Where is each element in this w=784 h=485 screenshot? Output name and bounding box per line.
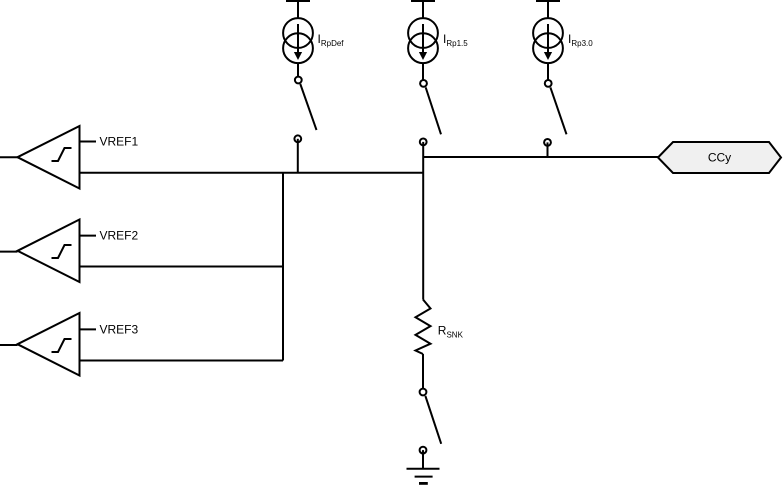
wire bbox=[547, 63, 549, 83]
wire bbox=[422, 450, 424, 469]
wire bbox=[80, 235, 97, 237]
svg-text:CCy: CCy bbox=[708, 151, 731, 165]
wire bbox=[0, 251, 18, 253]
svg-text:IRp1.5: IRp1.5 bbox=[443, 32, 468, 48]
wire bbox=[80, 328, 97, 330]
ground bbox=[407, 469, 440, 484]
comparator U2 bbox=[18, 220, 80, 283]
svg-text:IRp3.0: IRp3.0 bbox=[568, 32, 593, 48]
wire bbox=[422, 1, 424, 19]
power rail bar 3 bbox=[536, 0, 560, 2]
power rail bar 2 bbox=[411, 0, 435, 2]
node CCy bbox=[658, 142, 781, 173]
switch SW3 bbox=[544, 80, 566, 146]
wire bbox=[422, 63, 424, 83]
wire bbox=[297, 1, 299, 19]
power rail bar 1 bbox=[286, 0, 310, 2]
wire main bus bbox=[80, 172, 424, 174]
svg-text:RSNK: RSNK bbox=[438, 324, 464, 340]
wire to CCy bbox=[423, 156, 658, 158]
current source IRpDef bbox=[283, 18, 313, 63]
wire bbox=[297, 63, 299, 80]
svg-text:VREF1: VREF1 bbox=[100, 135, 139, 149]
comparator U1 bbox=[18, 126, 80, 189]
current source IRp1.5 bbox=[408, 18, 438, 63]
wire bbox=[547, 1, 549, 19]
wire bbox=[422, 354, 424, 392]
comparator U3 bbox=[18, 313, 80, 376]
wire bbox=[547, 142, 549, 157]
wire bbox=[0, 344, 18, 346]
current source IRp3.0 bbox=[533, 18, 563, 63]
wire bbox=[297, 139, 299, 173]
svg-text:VREF3: VREF3 bbox=[100, 322, 139, 336]
wire bbox=[422, 157, 424, 300]
wire comparator 3 output bbox=[80, 360, 284, 362]
wire bbox=[80, 141, 97, 143]
wire vertical bus bbox=[282, 173, 284, 361]
wire bbox=[422, 142, 424, 157]
wire comparator 2 output bbox=[80, 266, 284, 268]
switch SW4 bbox=[420, 389, 442, 454]
wire bbox=[0, 156, 18, 158]
svg-text:VREF2: VREF2 bbox=[100, 229, 139, 243]
switch SW2 bbox=[420, 80, 441, 145]
switch SW1 bbox=[294, 77, 316, 143]
svg-text:IRpDef: IRpDef bbox=[318, 32, 345, 48]
resistor RSNK bbox=[416, 300, 431, 355]
